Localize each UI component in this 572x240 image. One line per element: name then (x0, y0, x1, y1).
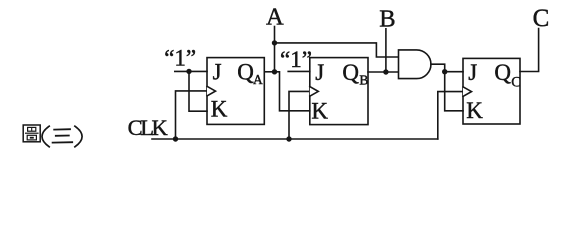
junction G1 output node (442, 69, 447, 74)
net label C (533, 5, 550, 32)
wire QC output to node C (520, 29, 539, 72)
svg-text:CLK: CLK (128, 115, 169, 140)
svg-text:K: K (211, 97, 228, 122)
wire QB output to AND gate lower input (368, 71, 399, 73)
junction CLK tap to U2 clock (286, 136, 291, 141)
svg-text:“1”: “1” (280, 47, 312, 72)
net label CLK (128, 115, 169, 140)
wire J/K tie down to K of U1 (189, 71, 207, 111)
value label "1" for U1 (164, 46, 196, 71)
flip-flop U2 (QB) (310, 58, 369, 125)
svg-text:A: A (253, 72, 263, 87)
wire QA output to node A (264, 71, 274, 73)
junction node A at QA output (272, 69, 277, 74)
wire CLK to clock of U1 (176, 91, 208, 139)
flip-flop U3 (QC) (463, 58, 521, 124)
junction J/K tie of U1 (186, 69, 191, 74)
svg-text:C: C (533, 5, 550, 32)
wire node A riser (274, 27, 276, 72)
net label B (379, 5, 395, 32)
svg-text:“1”: “1” (164, 46, 196, 71)
wire "1" to J of U2 (288, 70, 310, 72)
wire G1 output to J/K of U3 (431, 64, 463, 72)
junction CLK tap to U1 clock (173, 136, 178, 141)
svg-text:Q: Q (237, 60, 254, 85)
svg-text:B: B (379, 5, 395, 32)
wire A to K of U2 (275, 72, 310, 111)
svg-text:B: B (359, 73, 368, 88)
wire CLK to clock of U3 (438, 92, 463, 139)
wire CLK to clock of U2 (289, 91, 310, 139)
value label "1" for U2 (280, 47, 312, 72)
wire A to AND gate upper input (275, 43, 399, 57)
svg-text:A: A (266, 3, 284, 30)
svg-text:J: J (315, 60, 324, 85)
wire G1 node down to K of U3 (445, 72, 463, 111)
svg-text:J: J (468, 60, 477, 85)
wire "1" to J of U1 (175, 70, 207, 72)
svg-text:C: C (511, 75, 521, 91)
junction node A top branch (272, 40, 277, 45)
figure caption 圖(三) (23, 125, 82, 147)
svg-text:K: K (466, 98, 483, 123)
net label A (266, 3, 284, 30)
AND gate G1 (399, 50, 431, 79)
junction node B (383, 69, 388, 74)
wire CLK bus (152, 138, 438, 140)
svg-text:Q: Q (342, 60, 359, 85)
svg-text:K: K (311, 99, 328, 124)
svg-text:J: J (213, 60, 222, 85)
flip-flop U1 (QA) (207, 58, 264, 125)
svg-text:Q: Q (494, 60, 511, 85)
wire node B riser (385, 29, 387, 72)
